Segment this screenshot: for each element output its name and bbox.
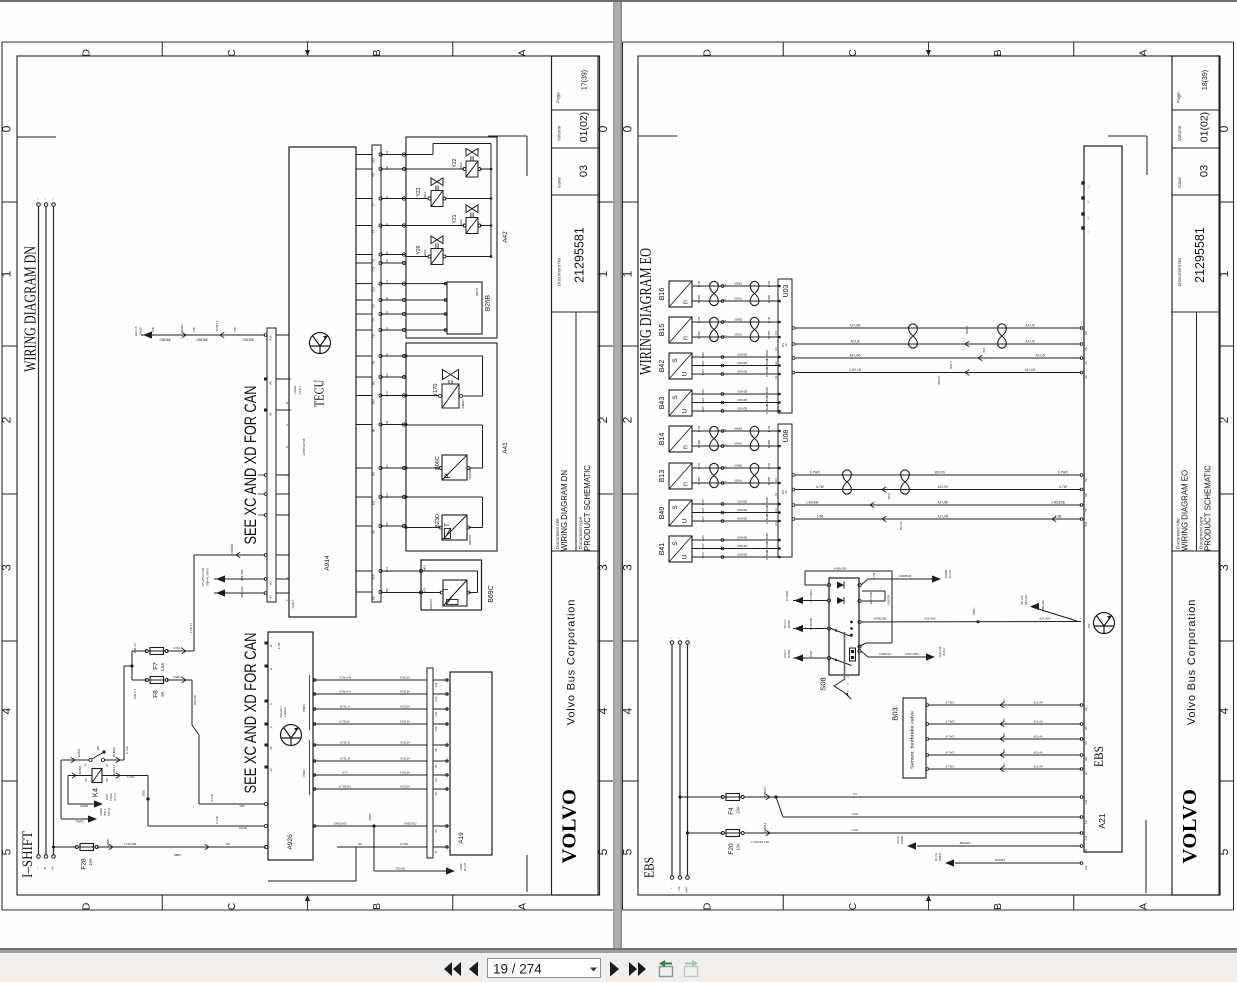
- K4 switch contact row: [61, 759, 89, 761]
- svg-text:A7SL-E: A7SL-E: [340, 741, 350, 745]
- svg-text:1.0R-FT: 1.0R-FT: [189, 623, 193, 634]
- svg-text:K4:B01.1: K4:B01.1: [112, 764, 116, 775]
- svg-text:XM069: XM069: [944, 569, 948, 578]
- svg-text:EBS: EBS: [1091, 746, 1106, 767]
- svg-text:C4: C4: [774, 478, 778, 482]
- svg-text:U06A1: U06A1: [734, 333, 743, 337]
- svg-text:6-8L/SB: 6-8L/SB: [887, 595, 891, 605]
- svg-text:FR8-5.1: FR8-5.1: [133, 689, 137, 700]
- svg-text:6-7WO: 6-7WO: [946, 701, 956, 705]
- valve Y26: [428, 236, 446, 265]
- svg-text:B4: B4: [372, 472, 376, 476]
- svg-text:V0.8-C: V0.8-C: [942, 648, 946, 656]
- svg-text:6-7BU/B: 6-7BU/B: [765, 395, 769, 405]
- svg-text:A7SL-B: A7SL-B: [340, 757, 350, 761]
- svg-text:A7SL6V: A7SL6V: [400, 741, 410, 745]
- svg-text:PRODUCT SCHEMATIC: PRODUCT SCHEMATIC: [583, 465, 592, 551]
- S08 handbrake switch: [829, 578, 859, 675]
- svg-text:PMR3: PMR3: [302, 704, 306, 712]
- fuse F28: [75, 844, 98, 851]
- title block: [1172, 56, 1220, 895]
- svg-text:6-50LGN: 6-50LGN: [879, 652, 891, 656]
- svg-text:6-7SB: 6-7SB: [210, 794, 214, 801]
- svg-text:3: 3: [620, 564, 634, 571]
- svg-text:4-7SGN/B: 4-7SGN/B: [124, 842, 137, 846]
- svg-text:9B9-2%F: 9B9-2%F: [240, 586, 244, 598]
- svg-text:C12: C12: [372, 287, 376, 292]
- svg-text:A15: A15: [434, 696, 438, 701]
- svg-text:6-7BU/B: 6-7BU/B: [765, 533, 769, 543]
- connector bar U03: [778, 279, 792, 413]
- side reference bands: [623, 201, 639, 203]
- svg-text:6-7W: 6-7W: [767, 462, 771, 469]
- svg-text:GNDBT: GNDBT: [995, 858, 1006, 862]
- svg-text:1-50U/SB: 1-50U/SB: [1051, 501, 1065, 505]
- svg-text:6-7BU/B: 6-7BU/B: [765, 497, 769, 507]
- S08 internal diodes: [837, 582, 844, 589]
- svg-text:3: 3: [596, 564, 610, 571]
- svg-text:A7: A7: [1084, 771, 1088, 775]
- svg-text:6-7W: 6-7W: [872, 572, 876, 579]
- svg-text:VA1C: VA1C: [459, 218, 463, 225]
- svg-text:C4: C4: [774, 331, 778, 335]
- svg-text:F20: F20: [853, 828, 858, 832]
- svg-text:B0-2.8: B0-2.8: [899, 521, 903, 530]
- svg-text:VOLVO: VOLVO: [1179, 789, 1201, 864]
- svg-text:A5: A5: [1084, 707, 1088, 711]
- svg-text:H: H: [285, 446, 289, 448]
- svg-text:CAN 1: CAN 1: [298, 385, 302, 394]
- svg-text:A0-U8: A0-U8: [850, 340, 859, 344]
- svg-text:A21-A6: A21-A6: [1033, 765, 1043, 769]
- svg-text:4: 4: [0, 707, 14, 714]
- svg-text:XM435: XM435: [900, 835, 904, 844]
- svg-text:A926: A926: [287, 834, 294, 850]
- top band dividers: [782, 42, 784, 56]
- svg-text:B6: B6: [372, 428, 376, 432]
- svg-text:A: A: [516, 903, 528, 910]
- A926 left pins: [265, 642, 268, 645]
- page gap edges: [614, 2, 622, 948]
- svg-text:A9: A9: [269, 381, 273, 385]
- svg-text:Page: Page: [556, 92, 561, 103]
- svg-text:Page: Page: [1176, 92, 1181, 103]
- svg-text:XM10: XM10: [139, 327, 143, 335]
- svg-text:A2-U06: A2-U06: [850, 324, 861, 328]
- sheet centre arrows: [928, 42, 930, 55]
- S08 right U-loop: [858, 599, 861, 602]
- svg-text:BRGND: BRGND: [960, 841, 972, 845]
- toolbar page combo box: [488, 959, 601, 978]
- A914 bar to TECU stubs: [276, 334, 289, 336]
- A926 output wires: [313, 679, 427, 681]
- svg-text:A10: A10: [1084, 835, 1088, 840]
- svg-text:XBF42 XBF0: XBF42 XBF0: [206, 568, 210, 586]
- svg-text:B66: B66: [982, 347, 986, 352]
- zone-0 margin tick p2: [638, 135, 677, 137]
- svg-text:9B9-2%F: 9B9-2%F: [240, 569, 244, 581]
- svg-text:3: 3: [0, 564, 14, 571]
- svg-text:6-7SE: 6-7SE: [400, 842, 408, 846]
- svg-text:PWRC: PWRC: [76, 820, 85, 824]
- PMR group brackets: [309, 675, 311, 730]
- svg-text:SEE XC AND XD FOR CAN: SEE XC AND XD FOR CAN: [242, 633, 260, 794]
- svg-text:WIRING DIAGRAM EO: WIRING DIAGRAM EO: [636, 248, 655, 375]
- svg-text:BU/Y: BU/Y: [701, 389, 705, 395]
- svg-text:1.0B: 1.0B: [151, 327, 155, 333]
- svg-text:CY-2B CV-2B: CY-2B CV-2B: [201, 568, 205, 586]
- svg-text:ZC-1 B: ZC-1 B: [463, 863, 467, 871]
- svg-text:A7SL6V: A7SL6V: [400, 690, 410, 694]
- svg-text:K4: K4: [91, 788, 100, 797]
- svg-text:Y21: Y21: [452, 214, 458, 223]
- svg-text:VA1E: VA1E: [423, 249, 427, 256]
- svg-text:F4: F4: [853, 792, 857, 796]
- svg-text:6-7W: 6-7W: [697, 280, 701, 287]
- svg-text:EMS UMA: EMS UMA: [869, 592, 873, 604]
- svg-text:B11: B11: [372, 500, 376, 505]
- svg-text:B9: B9: [372, 530, 376, 534]
- svg-text:BN/Y: BN/Y: [701, 516, 705, 522]
- svg-text:A2-U45: A2-U45: [1025, 368, 1036, 372]
- svg-text:B16: B16: [659, 288, 666, 301]
- K4 coil to A926 wire: [147, 776, 149, 827]
- svg-text:U08: U08: [783, 429, 790, 442]
- svg-text:A16: A16: [1084, 799, 1088, 804]
- svg-text:A1: A1: [269, 595, 273, 599]
- svg-text:CAN 7: CAN 7: [291, 599, 295, 608]
- svg-text:F4B/4.6: F4B/4.6: [763, 787, 767, 797]
- svg-text:+30: +30: [677, 886, 681, 891]
- fuse F7: [145, 648, 168, 655]
- svg-text:J1939: J1939: [293, 386, 297, 395]
- svg-text:S08: S08: [819, 677, 828, 690]
- svg-text:B8B/Y: B8B/Y: [174, 853, 182, 857]
- svg-text:C: C: [847, 49, 859, 57]
- page bottom shadow: [0, 948, 1237, 950]
- svg-text:C: C: [847, 902, 859, 910]
- svg-text:A2: A2: [434, 829, 438, 833]
- svg-text:6-7SGN/B: 6-7SGN/B: [809, 618, 813, 630]
- svg-text:6-7WO: 6-7WO: [810, 471, 821, 475]
- svg-text:A15: A15: [269, 335, 273, 340]
- svg-text:B8: B8: [372, 596, 376, 600]
- svg-text:Volume: Volume: [557, 125, 562, 141]
- svg-text:K4:B01: K4:B01: [77, 748, 81, 757]
- svg-text:A7SL6V: A7SL6V: [400, 676, 410, 680]
- svg-text:C2: C2: [774, 361, 778, 365]
- svg-text:GNDBAR: GNDBAR: [899, 574, 913, 578]
- svg-text:6-7W: 6-7W: [767, 425, 771, 432]
- title block: [552, 56, 600, 895]
- svg-text:6-7WB: 6-7WB: [767, 331, 771, 339]
- svg-text:6-7WO: 6-7WO: [946, 720, 956, 724]
- svg-text:Y23: Y23: [416, 187, 422, 196]
- svg-text:A21-A50: A21-A50: [1039, 617, 1051, 621]
- svg-text:A42: A42: [502, 231, 509, 243]
- svg-text:XM4/I: XM4/I: [106, 794, 109, 801]
- svg-text:6-9BL/SB: 6-9BL/SB: [874, 617, 886, 621]
- svg-text:XSA06: XSA06: [100, 808, 103, 816]
- svg-text:A4: A4: [434, 778, 438, 782]
- svg-text:GNDB8: GNDB8: [243, 338, 254, 342]
- svg-text:6-7BU/B: 6-7BU/B: [765, 505, 769, 515]
- svg-text:XCM4 T: XCM4 T: [215, 320, 219, 331]
- svg-text:A2-U6: A2-U6: [1025, 340, 1034, 344]
- svg-text:A8: A8: [1084, 757, 1088, 761]
- svg-text:U06A1: U06A1: [734, 479, 743, 483]
- ground wires below A926: [313, 825, 427, 827]
- svg-text:B42: B42: [659, 360, 666, 373]
- S08 pin3 wire: [793, 628, 828, 630]
- svg-text:21295581: 21295581: [573, 227, 587, 283]
- S08 right lower wire: [858, 649, 861, 652]
- S08 internal contacts: [850, 621, 853, 624]
- svg-text:U05A2B: U05A2B: [737, 500, 747, 504]
- toolbar next button: [610, 962, 619, 977]
- svg-text:U05A2B: U05A2B: [737, 398, 747, 402]
- svg-text:B: B: [371, 903, 383, 910]
- svg-text:6-7WB: 6-7WB: [767, 440, 771, 448]
- B03 footbrake sensor: [903, 698, 926, 778]
- svg-text:ZC-2 H: ZC-2 H: [948, 570, 952, 578]
- svg-text:SRC B: SRC B: [475, 288, 479, 297]
- svg-text:U05A2B: U05A2B: [737, 361, 747, 365]
- svg-text:1: 1: [1217, 270, 1231, 277]
- svg-text:GNDGND: GNDGND: [334, 822, 347, 826]
- zone-0 margin tick: [17, 136, 56, 138]
- svg-text:DEB1: DEB1: [142, 789, 146, 796]
- sensor B13: [669, 463, 692, 489]
- B23D temp sensor: [442, 515, 467, 540]
- svg-text:B8-0.5B: B8-0.5B: [193, 695, 197, 705]
- A41 enclosure: [406, 343, 497, 551]
- svg-text:U05A2B: U05A2B: [737, 553, 747, 557]
- svg-text:BN/Y: BN/Y: [701, 406, 705, 412]
- svg-text:C1: C1: [774, 375, 778, 379]
- svg-text:J1939-2: J1939-2: [283, 707, 287, 718]
- svg-text:C5: C5: [372, 304, 376, 308]
- svg-text:F8: F8: [153, 690, 160, 698]
- svg-text:TXB/12: TXB/12: [108, 807, 111, 816]
- svg-text:C7: C7: [372, 202, 376, 206]
- svg-text:XS/M10: XS/M10: [230, 543, 234, 554]
- svg-text:ZG-1A: ZG-1A: [896, 836, 900, 844]
- svg-text:8-7Y: 8-7Y: [342, 771, 348, 775]
- svg-text:FR8-4.5: FR8-4.5: [133, 643, 137, 654]
- svg-text:6-7BU/B: 6-7BU/B: [765, 367, 769, 377]
- svg-text:Issue: Issue: [557, 177, 562, 188]
- svg-text:6-7WO: 6-7WO: [1058, 471, 1069, 475]
- svg-text:A: A: [1137, 49, 1149, 56]
- svg-text:A16: A16: [434, 682, 438, 687]
- fold line bottom right: [526, 855, 528, 892]
- fuse F20: [721, 830, 744, 837]
- svg-text:GNDB8: GNDB8: [197, 338, 208, 342]
- svg-text:S/M06T: S/M06T: [461, 399, 465, 409]
- viewer top edge: [0, 0, 1237, 2]
- svg-text:A2-U45: A2-U45: [938, 515, 949, 519]
- connector bar U08: [778, 424, 792, 557]
- svg-text:5: 5: [596, 848, 610, 855]
- svg-text:B62-3: B62-3: [949, 361, 953, 369]
- svg-text:A21-A50: A21-A50: [924, 617, 936, 621]
- svg-text:A5: A5: [434, 764, 438, 768]
- svg-text:B3: B3: [372, 381, 376, 385]
- svg-text:A3: A3: [269, 581, 273, 585]
- svg-text:C1: C1: [372, 229, 376, 233]
- svg-text:Volume: Volume: [1177, 125, 1182, 141]
- svg-text:5A: 5A: [160, 691, 165, 696]
- page 2 sheet: [622, 2, 1237, 948]
- svg-text:U05A2B: U05A2B: [737, 407, 747, 411]
- svg-text:6-7BU/B: 6-7BU/B: [765, 541, 769, 551]
- S08 actuator chevron: [834, 679, 845, 693]
- svg-text:-20: -20: [784, 343, 788, 347]
- svg-text:A21: A21: [1097, 813, 1107, 828]
- svg-text:6-7BU/B: 6-7BU/B: [765, 404, 769, 414]
- B69C sensor assembly: [421, 560, 482, 610]
- svg-text:+30: +30: [51, 866, 55, 871]
- S08 mechanical link: [844, 632, 846, 679]
- svg-text:B6614: B6614: [965, 326, 969, 335]
- svg-text:A41: A41: [502, 442, 509, 454]
- svg-text:WIRING DIAGRAM DN: WIRING DIAGRAM DN: [21, 246, 40, 372]
- svg-text:BN/Y: BN/Y: [701, 552, 705, 558]
- svg-text:A7SLA-B: A7SLA-B: [339, 676, 351, 680]
- svg-text:C: C: [226, 49, 238, 57]
- sheet centre arrows: [307, 42, 309, 55]
- svg-text:A: A: [1137, 903, 1149, 910]
- svg-text:C: C: [226, 902, 238, 910]
- svg-text:6-7N/OB: 6-7N/OB: [785, 591, 789, 601]
- svg-text:A7SLA-A: A7SLA-A: [339, 690, 351, 694]
- sheet outer frame: [623, 41, 1234, 43]
- svg-text:6-7WO: 6-7WO: [946, 751, 956, 755]
- svg-text:A: A: [516, 49, 528, 56]
- svg-text:ZC-3 R: ZC-3 R: [934, 853, 938, 861]
- A19 block: [450, 672, 492, 855]
- valve Y21: [463, 205, 481, 234]
- svg-text:A3: A3: [434, 792, 438, 796]
- S08 main output wire to A21: [858, 620, 861, 623]
- svg-text:6-7WB: 6-7WB: [697, 331, 701, 339]
- svg-text:B: B: [992, 903, 1004, 910]
- svg-text:6-7W: 6-7W: [697, 462, 701, 469]
- sheet outer frame: [2, 41, 613, 43]
- svg-text:U06A1: U06A1: [734, 442, 743, 446]
- B69C wires: [381, 592, 441, 594]
- svg-text:A: A: [285, 424, 289, 426]
- svg-text:B40: B40: [659, 507, 666, 520]
- A914 pins A3 A1 wires: [214, 578, 265, 580]
- svg-text:U05A2B: U05A2B: [737, 544, 747, 548]
- K4 coil ground wire: [67, 776, 69, 805]
- TECU / A914 main block: [289, 147, 356, 617]
- svg-text:6-7WB: 6-7WB: [697, 440, 701, 448]
- S08 pin1 loop wire: [805, 584, 828, 586]
- svg-text:A92-C1BA: A92-C1BA: [905, 652, 919, 656]
- fuse F4: [721, 794, 744, 801]
- valve Y170: [442, 384, 459, 408]
- svg-text:GNDB8: GNDB8: [160, 338, 171, 342]
- svg-text:A0E-C1B: A0E-C1B: [938, 646, 942, 657]
- svg-text:20A: 20A: [736, 806, 741, 814]
- svg-text:F4A: F4A: [852, 812, 857, 816]
- B26B speed sensor: [447, 282, 482, 334]
- svg-text:1: 1: [596, 270, 610, 277]
- svg-text:A21-A6: A21-A6: [1033, 720, 1043, 724]
- svg-text:2: 2: [620, 416, 634, 423]
- svg-text:PRODUCT SCHEMATIC: PRODUCT SCHEMATIC: [1204, 465, 1213, 551]
- page 1 sheet: [0, 2, 613, 948]
- sensor B41: [669, 536, 692, 562]
- svg-text:B13: B13: [659, 470, 666, 483]
- TECU wheel symbol: [310, 333, 331, 354]
- svg-text:GN/Y: GN/Y: [701, 543, 705, 550]
- svg-text:5: 5: [620, 848, 634, 855]
- svg-text:U05A2B: U05A2B: [737, 370, 747, 374]
- A914 left pin wires: [141, 334, 265, 336]
- svg-text:B12: B12: [372, 399, 376, 404]
- svg-text:B48: B48: [386, 588, 389, 593]
- A42 right rail: [490, 169, 492, 257]
- svg-text:A21-A6: A21-A6: [1033, 735, 1043, 739]
- svg-text:U03: U03: [783, 284, 790, 297]
- svg-text:A2-U6: A2-U6: [1025, 324, 1034, 328]
- svg-text:Volvo Bus Corporation: Volvo Bus Corporation: [1186, 599, 1198, 725]
- svg-text:B01-0V: B01-0V: [935, 471, 947, 475]
- svg-text:B1: B1: [372, 360, 376, 364]
- toolbar: [0, 953, 1237, 982]
- svg-text:0: 0: [1217, 125, 1231, 132]
- svg-text:0: 0: [620, 125, 634, 132]
- svg-text:F20: F20: [728, 843, 735, 855]
- svg-text:+B: +B: [43, 867, 47, 871]
- svg-text:B69C: B69C: [488, 585, 495, 603]
- svg-text:D: D: [81, 49, 93, 57]
- svg-text:B8: B8: [226, 842, 230, 846]
- svg-text:T: T: [444, 523, 451, 527]
- svg-text:BU/Y: BU/Y: [701, 535, 705, 541]
- svg-text:A6: A6: [269, 412, 273, 416]
- supply bus wires p2: [671, 644, 673, 876]
- svg-text:6-7WB: 6-7WB: [697, 295, 701, 303]
- svg-text:VOLVO: VOLVO: [559, 789, 581, 864]
- svg-text:Volvo Bus Corporation: Volvo Bus Corporation: [566, 599, 578, 725]
- svg-text:F28: F28: [81, 858, 88, 870]
- svg-text:XM435: XM435: [938, 852, 942, 861]
- A926 lower-left wire routing: [264, 846, 266, 848]
- svg-text:C15: C15: [372, 158, 376, 163]
- svg-text:10A: 10A: [736, 843, 741, 851]
- svg-text:A12: A12: [1084, 865, 1088, 870]
- svg-text:2-U0-1D: 2-U0-1D: [849, 368, 862, 372]
- svg-text:TECU: TECU: [313, 380, 328, 408]
- corner bracket top right p2: [1108, 135, 1147, 137]
- svg-text:B43: B43: [659, 397, 666, 410]
- svg-text:U06B2: U06B2: [734, 282, 743, 286]
- svg-text:1.0B: 1.0B: [233, 327, 237, 333]
- svg-text:5: 5: [1217, 848, 1231, 855]
- toolbar prev button: [469, 962, 478, 977]
- svg-text:ECU-S: ECU-S: [134, 326, 138, 335]
- svg-text:A2-U6: A2-U6: [1035, 354, 1044, 358]
- svg-text:+BAT: +BAT: [685, 886, 689, 893]
- svg-text:A6: A6: [434, 748, 438, 752]
- svg-text:U05A2B: U05A2B: [737, 536, 747, 540]
- svg-text:A11: A11: [1084, 848, 1088, 853]
